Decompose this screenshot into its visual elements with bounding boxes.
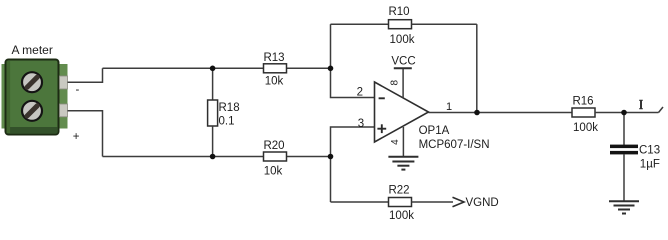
wire: minus tab to step <box>68 68 103 82</box>
wire: C13 top lead <box>623 113 625 146</box>
svg-text:2: 2 <box>357 87 363 99</box>
ground symbol (C13) <box>609 201 639 213</box>
junction node B (R13 right) <box>328 66 334 72</box>
op-amp plus sign <box>377 124 386 133</box>
wire: R18 bottom lead <box>212 126 214 157</box>
resistor R10 <box>389 20 412 29</box>
terminal block front face <box>6 60 59 135</box>
svg-text:MCP607-I/SN: MCP607-I/SN <box>419 139 490 151</box>
wire: plus tab down-step <box>68 111 103 157</box>
op-amp ground pin wire <box>402 127 404 157</box>
ground symbol (op-amp) <box>388 157 418 170</box>
svg-text:-: - <box>76 84 80 96</box>
wire: VGND branch horizontal <box>331 201 389 203</box>
wire: open end tick <box>659 107 664 113</box>
wire: R13 to junction <box>287 67 331 69</box>
tab pin 2 <box>60 104 68 117</box>
wire: feedback top right <box>412 23 477 25</box>
svg-text:R16: R16 <box>572 96 593 108</box>
svg-text:VCC: VCC <box>391 56 415 68</box>
svg-text:3: 3 <box>358 118 364 130</box>
resistor R18 <box>208 100 218 126</box>
VGND arrow <box>453 197 465 207</box>
svg-text:VGND: VGND <box>466 197 499 209</box>
net label I <box>639 100 643 108</box>
op-amp minus sign <box>379 97 385 99</box>
svg-text:100k: 100k <box>389 210 414 222</box>
VCC symbol <box>402 68 404 98</box>
svg-text:10k: 10k <box>265 76 284 88</box>
wire: inverting input drop <box>331 68 375 97</box>
svg-text:4: 4 <box>390 139 401 145</box>
wire: feedback top left <box>331 23 389 25</box>
junction node F (R16/C13) <box>621 110 627 116</box>
wire: feedback left vertical <box>330 24 332 68</box>
svg-text:R20: R20 <box>263 140 284 152</box>
svg-text:100k: 100k <box>390 34 415 46</box>
wire: junction to open end <box>624 112 659 114</box>
junction node D (R20 right) <box>328 154 334 160</box>
screw 2 <box>22 101 42 121</box>
wire: op-amp output <box>429 112 478 114</box>
svg-text:+: + <box>73 131 80 143</box>
wire: non-inverting input rise <box>331 127 375 157</box>
wire: output to R16 <box>477 112 572 114</box>
svg-text:OP1A: OP1A <box>419 125 450 137</box>
wire: top horizontal to R13 <box>103 67 264 69</box>
resistor R22 <box>389 198 412 207</box>
svg-text:1: 1 <box>446 101 452 113</box>
resistor R20 <box>264 152 287 161</box>
resistor R16 <box>572 108 595 117</box>
wire: feedback right vertical <box>476 24 478 112</box>
svg-text:A meter: A meter <box>12 43 53 57</box>
terminal block bottom shade <box>7 127 57 133</box>
wire: C13 bottom lead <box>623 154 625 201</box>
resistor R13 <box>264 64 287 73</box>
screw 1 <box>22 72 42 92</box>
junction node A (R18 top) <box>210 66 216 72</box>
svg-text:10k: 10k <box>264 166 283 178</box>
svg-text:8: 8 <box>390 79 401 85</box>
wire: R18 top lead <box>212 68 214 100</box>
op-amp U1 triangle <box>375 82 429 142</box>
junction node C (R18 bottom) <box>210 154 216 160</box>
svg-text:R10: R10 <box>388 6 409 18</box>
svg-text:100k: 100k <box>573 122 598 134</box>
svg-text:R22: R22 <box>388 185 409 197</box>
wire: R22 to VGND arrow <box>412 201 454 203</box>
svg-text:1µF: 1µF <box>640 159 660 171</box>
junction node E (output/feedback) <box>474 110 480 116</box>
wire: VGND branch vertical <box>330 157 332 203</box>
svg-text:C13: C13 <box>639 145 660 157</box>
wire: bottom horizontal to R20 <box>103 156 264 158</box>
wire: R16 to C13 junction <box>595 112 624 114</box>
wire: R20 to junction <box>287 156 331 158</box>
svg-text:R18: R18 <box>219 102 240 114</box>
connector J1 "A meter" terminal block <box>2 60 68 135</box>
terminal block back body <box>2 64 68 129</box>
capacitor C13 <box>610 145 638 149</box>
svg-text:0.1: 0.1 <box>219 116 235 128</box>
svg-text:R13: R13 <box>263 52 284 64</box>
terminal block left bevel <box>7 61 11 133</box>
tab pin 1 <box>60 76 68 89</box>
